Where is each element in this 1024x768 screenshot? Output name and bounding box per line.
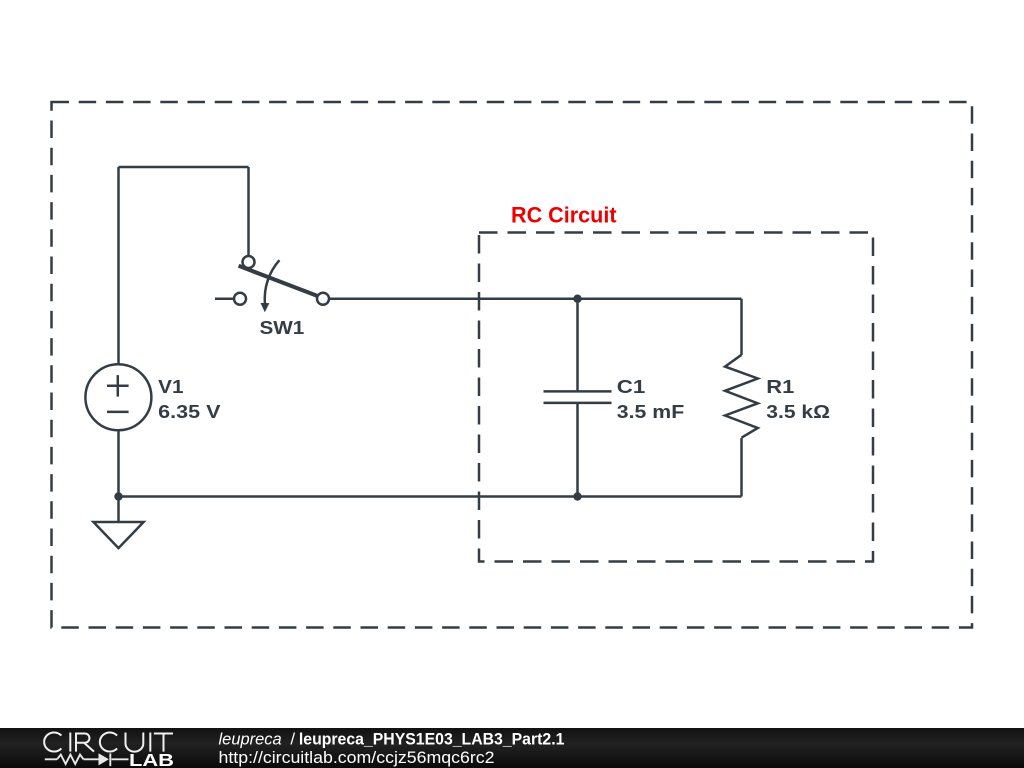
svg-text:3.5 mF: 3.5 mF [617, 402, 684, 422]
svg-text:leupreca: leupreca [219, 729, 282, 748]
svg-text:3.5 kΩ: 3.5 kΩ [766, 402, 830, 422]
svg-text:RC Circuit: RC Circuit [511, 203, 617, 228]
svg-text:http://circuitlab.com/ccjz56mq: http://circuitlab.com/ccjz56mqc6rc2 [219, 748, 495, 767]
svg-text:SW1: SW1 [260, 318, 305, 338]
svg-text:leupreca_PHYS1E03_LAB3_Part2.1: leupreca_PHYS1E03_LAB3_Part2.1 [299, 729, 565, 748]
svg-text:V1: V1 [158, 377, 183, 397]
svg-text:C1: C1 [617, 377, 646, 397]
svg-text:LAB: LAB [129, 750, 174, 768]
svg-text:R1: R1 [766, 377, 794, 397]
svg-text:/: / [290, 729, 295, 748]
svg-text:6.35 V: 6.35 V [158, 402, 220, 422]
